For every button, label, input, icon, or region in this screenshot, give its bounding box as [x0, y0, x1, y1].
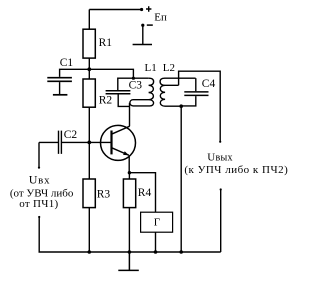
svg-text:L2: L2 [163, 62, 175, 74]
wire R1 bottom lead [88, 58, 90, 69]
transistor emitter arrow [123, 151, 129, 155]
node rail output [179, 250, 183, 254]
wire emitter junction to R4 [128, 173, 130, 179]
tank1 top wire [118, 78, 149, 90]
wire output left line [180, 106, 182, 252]
wire C4 top lead [195, 78, 197, 91]
ground C1 bar [53, 94, 68, 96]
wire emitter vertical [128, 155, 130, 173]
resistor R3 [83, 179, 95, 208]
svg-text:L1: L1 [145, 62, 157, 74]
supply minus bar [133, 44, 152, 46]
input terminal stub upper [38, 142, 40, 167]
supply minus lead [142, 25, 144, 44]
svg-text:Еп: Еп [154, 12, 167, 24]
svg-text:R4: R4 [138, 187, 152, 199]
svg-text:Г: Г [154, 217, 160, 229]
svg-text:Uвх: Uвх [29, 173, 51, 187]
wire R3 bottom lead [88, 208, 90, 252]
wire collector vertical [129, 103, 131, 126]
resistor R2 [83, 79, 95, 107]
label plus [146, 6, 151, 11]
node output stub end bottom [220, 188, 222, 190]
transistor base bar [110, 131, 112, 155]
node input stub end top [38, 167, 40, 169]
wire main column top [88, 10, 90, 30]
svg-text:R3: R3 [97, 188, 111, 200]
node supply plus dot [140, 8, 143, 11]
capacitor C1 [47, 78, 72, 82]
svg-text:C1: C1 [60, 57, 74, 69]
transistor emitter diagonal [112, 148, 129, 156]
capacitor C3 [106, 91, 131, 94]
wire junction to tank [89, 69, 133, 78]
wire G bottom lead [155, 232, 157, 252]
ground symbol bottom [118, 252, 139, 270]
node L2 C4 bottom junction [179, 104, 183, 108]
svg-text:R2: R2 [99, 95, 113, 107]
wire C2 to base junction [62, 141, 112, 143]
wire emitter junction to G block [129, 173, 155, 213]
node input stub end bottom [38, 216, 40, 218]
transistor collector diagonal [112, 126, 130, 134]
svg-text:Uвых: Uвых [207, 152, 233, 164]
capacitor C4 [184, 92, 208, 96]
node output stub end top [219, 141, 221, 143]
resistor R4 [123, 179, 135, 208]
node rail G [154, 250, 158, 254]
node tank top junction [132, 77, 135, 80]
svg-text:C3: C3 [129, 80, 143, 92]
capacitor C2 [59, 131, 62, 154]
node rail R4 ground [128, 250, 132, 254]
svg-text:от ПЧ1): от ПЧ1) [19, 198, 58, 210]
resistor R1 [83, 29, 95, 58]
wire C4 bottom lead [181, 96, 196, 106]
wire junction to C1 [60, 69, 90, 77]
inductor L1 [130, 78, 154, 106]
wire R4 bottom lead [128, 208, 130, 252]
wire top rail to supply [89, 9, 141, 11]
wire R2 top lead [88, 69, 90, 79]
wire output right line lower [220, 190, 222, 253]
wire C1 bottom lead [59, 82, 61, 95]
node base junction [87, 141, 91, 145]
node emitter junction [128, 171, 131, 174]
wire C3 bottom lead [118, 95, 129, 107]
svg-text:R1: R1 [99, 37, 113, 49]
svg-text:C2: C2 [64, 129, 78, 141]
svg-text:C4: C4 [202, 78, 216, 90]
node junction R1 R2 C1 [87, 67, 91, 71]
transistor VT circle [101, 125, 136, 160]
inductor L2 [160, 78, 196, 106]
input terminal stub lower [39, 217, 221, 252]
wire R2 bottom to base junction [88, 107, 90, 179]
wire input to C2 [39, 141, 58, 143]
node supply minus dot [141, 24, 144, 27]
node rail R3 [88, 250, 92, 254]
block G box [141, 212, 173, 232]
label minus [147, 24, 153, 26]
wire L2 tap up and top-right wire [179, 71, 221, 142]
svg-text:(к УПЧ либо к ПЧ2): (к УПЧ либо к ПЧ2) [184, 164, 288, 176]
